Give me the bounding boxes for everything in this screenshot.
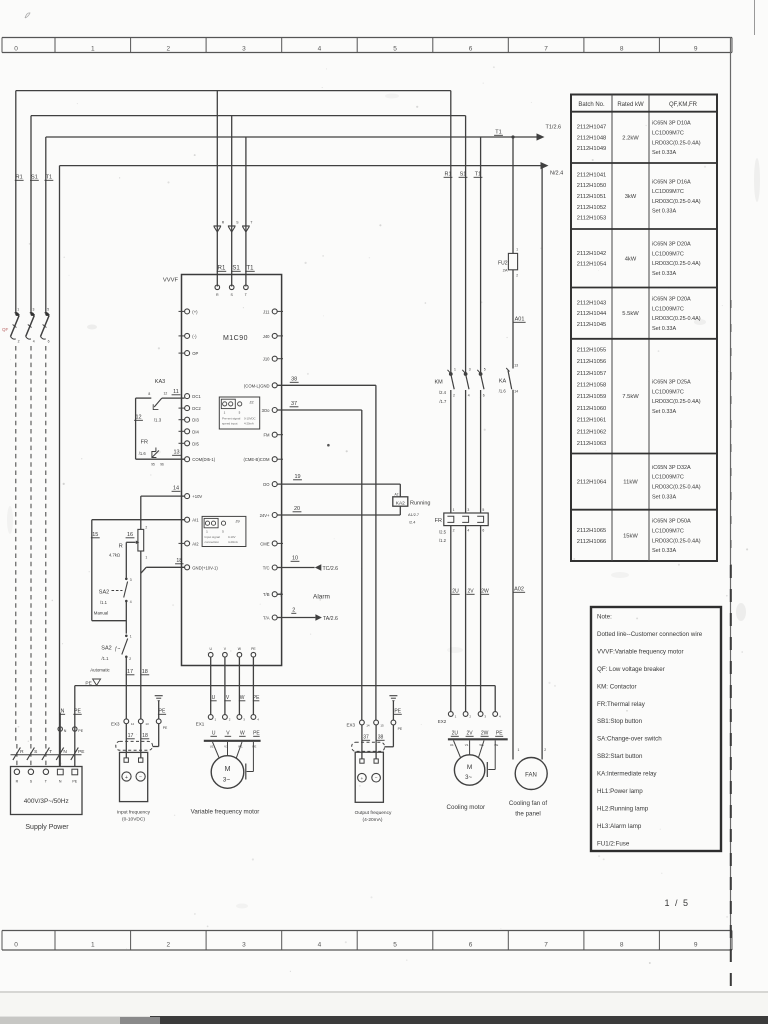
svg-text:1: 1 <box>130 635 132 639</box>
svg-text:iC65N 3P D25A: iC65N 3P D25A <box>652 379 691 385</box>
svg-text:2V: 2V <box>467 731 474 737</box>
svg-text:2112H1053: 2112H1053 <box>577 216 607 222</box>
svg-text:R: R <box>20 749 24 755</box>
svg-text:PE: PE <box>398 727 403 731</box>
svg-text:iC65N 3P D10A: iC65N 3P D10A <box>652 121 691 127</box>
svg-text:T/A: T/A <box>263 616 270 621</box>
svg-text:2112H1056: 2112H1056 <box>577 359 607 365</box>
svg-text:5: 5 <box>482 508 484 512</box>
svg-text:95: 95 <box>151 463 155 467</box>
svg-text:U: U <box>212 695 216 701</box>
svg-text:DI5: DI5 <box>192 441 199 446</box>
svg-text:5: 5 <box>393 46 397 53</box>
svg-text:2112H1042: 2112H1042 <box>577 251 607 257</box>
svg-text:R: R <box>216 293 219 297</box>
svg-text:2A: 2A <box>503 268 508 273</box>
svg-text:iC65N 3P D50A: iC65N 3P D50A <box>652 519 691 525</box>
svg-text:9: 9 <box>694 942 698 949</box>
svg-text:14: 14 <box>173 486 179 492</box>
svg-text:W: W <box>240 695 245 701</box>
svg-text:R1: R1 <box>444 172 451 178</box>
svg-text:/1.6: /1.6 <box>139 451 147 456</box>
svg-text:3Oo: 3Oo <box>262 408 271 413</box>
svg-text:U: U <box>212 731 216 737</box>
svg-text:2112H1055: 2112H1055 <box>577 347 607 353</box>
svg-text:2112H1047: 2112H1047 <box>577 125 607 131</box>
svg-text:A02: A02 <box>514 587 524 593</box>
svg-text:2: 2 <box>453 394 455 398</box>
svg-text:2112H1060: 2112H1060 <box>577 406 607 412</box>
svg-text:R1: R1 <box>16 175 23 181</box>
svg-text:4: 4 <box>467 529 469 533</box>
svg-text:PE: PE <box>253 731 260 737</box>
svg-text:11: 11 <box>173 389 179 395</box>
svg-text:2: 2 <box>18 340 20 344</box>
svg-text:HL2:Running lamp: HL2:Running lamp <box>597 805 649 812</box>
svg-text:QF: QF <box>2 327 9 332</box>
svg-text:LRD03C(0.25-0.4A): LRD03C(0.25-0.4A) <box>652 261 701 267</box>
svg-text:7.5kW: 7.5kW <box>622 394 639 400</box>
svg-text:EX3: EX3 <box>347 723 356 728</box>
svg-text:1: 1 <box>145 556 147 560</box>
svg-text:Set 0.33A: Set 0.33A <box>652 209 676 215</box>
svg-text:0: 0 <box>14 46 18 53</box>
svg-text:18: 18 <box>142 669 148 675</box>
svg-text:(0-10VDC): (0-10VDC) <box>122 817 145 823</box>
svg-text:9: 9 <box>694 46 698 53</box>
svg-text:4-20mA: 4-20mA <box>244 422 254 426</box>
svg-text:SA2: SA2 <box>101 646 111 652</box>
svg-text:EX1: EX1 <box>196 722 205 727</box>
svg-text:−: − <box>375 777 378 782</box>
svg-text:LC1D09M7C: LC1D09M7C <box>652 130 684 136</box>
svg-text:1: 1 <box>454 368 456 372</box>
svg-text:T1: T1 <box>46 175 52 181</box>
svg-text:N/2.4: N/2.4 <box>550 171 563 177</box>
svg-text:38: 38 <box>378 735 384 741</box>
svg-text:Set 0.33A: Set 0.33A <box>652 409 676 415</box>
svg-text:2112H1043: 2112H1043 <box>577 300 607 306</box>
svg-text:3: 3 <box>242 942 246 949</box>
svg-text:0-10V: 0-10V <box>228 535 236 539</box>
svg-text:2: 2 <box>167 46 171 53</box>
svg-text:N: N <box>61 709 65 715</box>
svg-text:1: 1 <box>17 308 19 312</box>
svg-text:1: 1 <box>516 248 518 252</box>
svg-text:Supply Power: Supply Power <box>25 824 69 831</box>
svg-text:A1/2.7: A1/2.7 <box>408 513 419 517</box>
svg-text:iC65N 3P D16A: iC65N 3P D16A <box>652 179 691 185</box>
svg-text:1: 1 <box>91 46 95 53</box>
svg-text:SA:Change-over switch: SA:Change-over switch <box>597 736 662 743</box>
svg-text:4: 4 <box>130 600 132 604</box>
svg-text:24V+: 24V+ <box>260 513 270 518</box>
svg-text:17: 17 <box>127 669 133 675</box>
svg-text:VVVF:Variable frequency motor: VVVF:Variable frequency motor <box>597 648 684 655</box>
svg-text:TC/2.6: TC/2.6 <box>323 566 339 572</box>
svg-text:connection: connection <box>205 540 220 544</box>
svg-text:Pre-set signal: Pre-set signal <box>222 417 241 421</box>
svg-text:J10: J10 <box>263 357 270 362</box>
svg-text:3~: 3~ <box>223 777 231 784</box>
svg-text:PE: PE <box>251 647 256 651</box>
svg-text:(CME-B)COM: (CME-B)COM <box>243 457 270 462</box>
svg-text:PE: PE <box>159 709 166 715</box>
svg-text:2: 2 <box>453 529 455 533</box>
svg-text:J11: J11 <box>263 309 270 314</box>
svg-text:Rated kW: Rated kW <box>617 102 644 108</box>
svg-text:LRD03C(0.25-0.4A): LRD03C(0.25-0.4A) <box>652 399 701 405</box>
svg-text:4: 4 <box>318 942 322 949</box>
svg-text:(4-20mA): (4-20mA) <box>363 817 383 823</box>
svg-text:12: 12 <box>164 392 168 396</box>
svg-text:10: 10 <box>292 556 298 562</box>
svg-text:3: 3 <box>130 578 132 582</box>
svg-text:/1.7: /1.7 <box>439 399 447 404</box>
svg-text:EX2: EX2 <box>438 719 447 724</box>
svg-text:3: 3 <box>467 508 469 512</box>
svg-text:SA2: SA2 <box>99 590 109 596</box>
svg-text:iC65N 3P D20A: iC65N 3P D20A <box>652 296 691 302</box>
svg-text:8: 8 <box>620 46 624 53</box>
svg-text:PE: PE <box>72 780 77 784</box>
svg-text:1: 1 <box>453 508 455 512</box>
svg-text:Cooling fan of: Cooling fan of <box>509 800 547 807</box>
svg-text:2U: 2U <box>452 589 459 595</box>
svg-text:A01: A01 <box>515 317 525 323</box>
svg-text:/2.5: /2.5 <box>439 530 447 535</box>
svg-text:LC1D09M7C: LC1D09M7C <box>652 251 684 257</box>
svg-text:3: 3 <box>242 46 246 53</box>
svg-text:TA/2.6: TA/2.6 <box>323 616 338 622</box>
svg-text:2112H1057: 2112H1057 <box>577 371 607 377</box>
svg-text:−: − <box>139 775 142 781</box>
svg-text:2112H1059: 2112H1059 <box>577 394 607 400</box>
svg-text:2V: 2V <box>467 589 474 595</box>
svg-text:KA3: KA3 <box>155 379 165 385</box>
svg-text:Set 0.33A: Set 0.33A <box>652 548 676 554</box>
svg-text:2U: 2U <box>452 731 459 737</box>
svg-text:DC1: DC1 <box>192 394 201 399</box>
svg-text:iC65N 3P D32A: iC65N 3P D32A <box>652 465 691 471</box>
svg-text:7: 7 <box>544 46 548 53</box>
svg-text:2112H1048: 2112H1048 <box>577 135 607 141</box>
svg-text:17: 17 <box>128 733 134 739</box>
svg-text:QF: Low voltage breaker: QF: Low voltage breaker <box>597 666 665 673</box>
svg-text:T/B: T/B <box>263 592 270 597</box>
svg-text:8: 8 <box>620 942 624 949</box>
svg-text:6: 6 <box>469 942 473 949</box>
svg-text:S: S <box>34 749 37 755</box>
svg-text:FR: FR <box>435 518 442 524</box>
svg-text:5: 5 <box>393 942 397 949</box>
svg-text:2112H1066: 2112H1066 <box>577 539 607 545</box>
svg-text:2112H1049: 2112H1049 <box>577 146 607 152</box>
svg-text:FR:Thermal relay: FR:Thermal relay <box>597 701 646 708</box>
svg-text:T1: T1 <box>246 266 254 272</box>
svg-text:SB1:Stop button: SB1:Stop button <box>597 718 643 725</box>
svg-text:PE: PE <box>496 731 503 737</box>
svg-text:2112H1054: 2112H1054 <box>577 262 607 268</box>
svg-text:LRD03C(0.25-0.4A): LRD03C(0.25-0.4A) <box>652 538 701 544</box>
svg-text:PE: PE <box>253 695 260 701</box>
svg-text:M: M <box>225 766 231 773</box>
svg-text:38: 38 <box>291 377 297 383</box>
svg-text:3: 3 <box>469 368 471 372</box>
svg-text:2: 2 <box>145 526 147 530</box>
svg-text:VVVF: VVVF <box>163 278 179 284</box>
svg-text:CME: CME <box>260 541 270 546</box>
svg-text:/1.3: /1.3 <box>154 418 162 423</box>
svg-text:2112H1050: 2112H1050 <box>577 183 607 189</box>
svg-text:Set 0.33A: Set 0.33A <box>652 271 676 277</box>
svg-text:S1: S1 <box>31 175 38 181</box>
svg-text:N: N <box>63 749 67 755</box>
svg-text:/1.1: /1.1 <box>100 600 108 605</box>
svg-text:PE: PE <box>74 709 81 715</box>
svg-text:N: N <box>64 729 67 733</box>
svg-text:2: 2 <box>129 657 131 661</box>
svg-text:AI1: AI1 <box>192 518 199 523</box>
svg-text:5: 5 <box>484 368 486 372</box>
svg-text:W: W <box>240 731 245 737</box>
svg-text:S1: S1 <box>232 266 240 272</box>
svg-text:14: 14 <box>514 390 518 394</box>
svg-text:2112H1044: 2112H1044 <box>577 311 607 317</box>
svg-text:LC1D09M7C: LC1D09M7C <box>652 528 684 534</box>
svg-text:T1: T1 <box>495 130 501 136</box>
svg-text:1: 1 <box>91 942 95 949</box>
svg-text:SB2:Start button: SB2:Start button <box>597 753 643 760</box>
svg-text:12: 12 <box>131 722 135 726</box>
svg-text:EX3: EX3 <box>111 722 120 727</box>
svg-text:LRD03C(0.25-0.4A): LRD03C(0.25-0.4A) <box>652 316 701 322</box>
svg-text:PE: PE <box>78 729 83 733</box>
svg-text:Dotted line--Customer connecti: Dotted line--Customer connection wire <box>597 631 703 638</box>
svg-text:KA: KA <box>499 379 507 385</box>
svg-text:11kW: 11kW <box>623 480 638 486</box>
svg-text:R1: R1 <box>218 266 226 272</box>
svg-text:QF,KM,FR: QF,KM,FR <box>669 102 698 108</box>
svg-text:2: 2 <box>292 608 295 614</box>
svg-text:20: 20 <box>294 506 300 512</box>
svg-text:96: 96 <box>160 463 164 467</box>
svg-text:DO: DO <box>263 482 270 487</box>
svg-text:5: 5 <box>47 308 49 312</box>
svg-text:2: 2 <box>516 274 518 278</box>
svg-text:6: 6 <box>483 394 485 398</box>
svg-text:2112H1051: 2112H1051 <box>577 194 607 200</box>
svg-text:+: + <box>125 775 128 781</box>
svg-text:Note:: Note: <box>597 614 612 621</box>
svg-text:0: 0 <box>14 942 18 949</box>
svg-text:the panel: the panel <box>515 811 540 818</box>
svg-text:37: 37 <box>291 401 297 407</box>
svg-text:13: 13 <box>514 364 518 368</box>
svg-text:2W: 2W <box>481 731 489 737</box>
svg-text:M1C90: M1C90 <box>223 335 248 342</box>
svg-text:6: 6 <box>482 529 484 533</box>
svg-text:FU2: FU2 <box>498 261 508 267</box>
svg-text:FR: FR <box>141 440 148 446</box>
svg-text:Set 0.33A: Set 0.33A <box>652 494 676 500</box>
svg-text:2: 2 <box>167 942 171 949</box>
svg-text:PE: PE <box>85 681 91 687</box>
svg-text:2112H1041: 2112H1041 <box>577 172 607 178</box>
svg-text:OP: OP <box>192 351 198 356</box>
svg-text:T: T <box>250 221 252 225</box>
svg-text:4.7kΩ: 4.7kΩ <box>109 553 120 558</box>
svg-text:Input signal: Input signal <box>205 535 221 539</box>
svg-text:COM(DI5-1): COM(DI5-1) <box>192 457 215 462</box>
svg-text:+: + <box>360 777 363 782</box>
svg-text:LC1D09M7C: LC1D09M7C <box>652 389 684 395</box>
svg-text:LC1D09M7C: LC1D09M7C <box>652 189 684 195</box>
svg-text:1 / 5: 1 / 5 <box>664 898 689 908</box>
svg-text:6: 6 <box>48 340 50 344</box>
svg-text:(+): (+) <box>192 309 198 314</box>
svg-text:KA:Intermediate relay: KA:Intermediate relay <box>597 771 657 778</box>
svg-text:M: M <box>467 764 472 771</box>
svg-text:Cooling motor: Cooling motor <box>447 804 486 811</box>
svg-text:T: T <box>49 749 52 755</box>
svg-text:FAN: FAN <box>525 773 537 779</box>
svg-text:Running: Running <box>410 501 431 507</box>
svg-text:14: 14 <box>366 723 370 727</box>
svg-text:Input frequency: Input frequency <box>117 810 151 816</box>
svg-text:T1: T1 <box>475 172 481 178</box>
svg-text:KM: KM <box>434 380 443 386</box>
svg-text:16: 16 <box>127 532 133 538</box>
svg-text:GND(+10V-1): GND(+10V-1) <box>192 565 218 570</box>
svg-text:7: 7 <box>544 942 548 949</box>
svg-text:15: 15 <box>380 723 384 727</box>
svg-text:2.2kW: 2.2kW <box>622 135 639 141</box>
svg-text:iC65N 3P D20A: iC65N 3P D20A <box>652 242 691 248</box>
svg-text:+10V: +10V <box>192 494 202 499</box>
svg-text:LRD03C(0.25-0.4A): LRD03C(0.25-0.4A) <box>652 485 701 491</box>
svg-text:LRD03C(0.25-0.4A): LRD03C(0.25-0.4A) <box>652 140 701 146</box>
svg-text:PE: PE <box>394 709 401 715</box>
svg-text:2112H1063: 2112H1063 <box>577 441 607 447</box>
svg-text:R: R <box>119 544 123 550</box>
svg-text:2112H1062: 2112H1062 <box>577 429 607 435</box>
svg-text:4kW: 4kW <box>625 256 637 262</box>
svg-text:LC1D09M7C: LC1D09M7C <box>652 475 684 481</box>
svg-text:PE: PE <box>163 726 168 730</box>
svg-text:13: 13 <box>173 450 179 456</box>
svg-text:/1.1: /1.1 <box>102 656 110 661</box>
svg-text:2112H1065: 2112H1065 <box>577 528 607 534</box>
svg-text:AI2: AI2 <box>192 541 199 546</box>
svg-text:2112H1052: 2112H1052 <box>577 205 607 211</box>
svg-text:13: 13 <box>145 722 149 726</box>
svg-text:Manual: Manual <box>94 611 108 616</box>
svg-text:15kW: 15kW <box>623 533 638 539</box>
svg-text:U1: U1 <box>450 743 454 747</box>
svg-text:FU1/2:Fuse: FU1/2:Fuse <box>597 840 630 847</box>
svg-text:(COM-L)GND: (COM-L)GND <box>244 383 270 388</box>
svg-text:4: 4 <box>33 340 35 344</box>
svg-text:A2: A2 <box>395 493 399 497</box>
svg-text:HL3:Alarm lamp: HL3:Alarm lamp <box>597 823 642 830</box>
svg-text:2112H1061: 2112H1061 <box>577 418 607 424</box>
svg-text:Set 0.33A: Set 0.33A <box>652 326 676 332</box>
svg-text:Set 0.33A: Set 0.33A <box>652 150 676 156</box>
svg-text:T/C: T/C <box>263 566 270 571</box>
svg-text:LRD03C(0.25-0.4A): LRD03C(0.25-0.4A) <box>652 199 701 205</box>
svg-text:3~: 3~ <box>465 775 472 781</box>
svg-text:S1: S1 <box>460 172 467 178</box>
svg-text:/1.6: /1.6 <box>499 389 507 394</box>
svg-text:8: 8 <box>148 392 150 396</box>
svg-text:4: 4 <box>468 394 470 398</box>
svg-text:/1.2: /1.2 <box>439 538 447 543</box>
svg-text:(-): (-) <box>192 334 197 339</box>
svg-text:5.5kW: 5.5kW <box>622 311 639 317</box>
svg-text:LC1D09M7C: LC1D09M7C <box>652 306 684 312</box>
svg-text:2112H1058: 2112H1058 <box>577 382 607 388</box>
svg-text:4-20mA: 4-20mA <box>228 540 238 544</box>
svg-text:FM: FM <box>263 433 270 438</box>
svg-text:18: 18 <box>176 558 182 564</box>
svg-text:Automatic: Automatic <box>90 668 110 673</box>
svg-text:V1: V1 <box>465 743 469 747</box>
svg-text:2: 2 <box>544 748 546 752</box>
svg-text:N: N <box>59 780 62 784</box>
svg-text:0-10VDC: 0-10VDC <box>244 417 256 421</box>
svg-text:DI3: DI3 <box>192 418 199 423</box>
svg-text:KM: Contactor: KM: Contactor <box>597 683 637 690</box>
svg-text:Batch No.: Batch No. <box>578 102 605 108</box>
svg-text:400V/3P~/50Hz: 400V/3P~/50Hz <box>24 798 69 805</box>
svg-text:DI4: DI4 <box>192 429 199 434</box>
svg-text:12: 12 <box>135 415 141 421</box>
svg-text:2W: 2W <box>481 589 489 595</box>
svg-text:2112H1045: 2112H1045 <box>577 322 607 328</box>
svg-text:Variable frequency motor: Variable frequency motor <box>191 809 260 816</box>
svg-text:J40: J40 <box>263 334 270 339</box>
svg-text:Alarm: Alarm <box>313 594 330 601</box>
svg-text:37: 37 <box>363 735 369 741</box>
svg-text:/2.4: /2.4 <box>409 521 415 525</box>
svg-text:KA2: KA2 <box>396 500 405 506</box>
svg-text:15: 15 <box>92 532 98 538</box>
svg-text:HL1:Power lamp: HL1:Power lamp <box>597 788 643 795</box>
svg-text:R: R <box>16 780 19 784</box>
svg-text:18: 18 <box>142 733 148 739</box>
svg-text:4: 4 <box>318 46 322 53</box>
svg-text:T1/2.6: T1/2.6 <box>546 125 562 131</box>
svg-text:Output frequency: Output frequency <box>355 810 392 816</box>
svg-text:/2.4: /2.4 <box>439 390 447 395</box>
svg-text:2112H1064: 2112H1064 <box>577 480 607 486</box>
svg-text:speed input: speed input <box>222 422 238 426</box>
svg-text:19: 19 <box>294 474 300 480</box>
svg-text:3: 3 <box>33 308 35 312</box>
svg-text:PE: PE <box>78 749 84 755</box>
svg-text:3kW: 3kW <box>625 194 637 200</box>
svg-text:6: 6 <box>469 46 473 53</box>
svg-text:ƒ~: ƒ~ <box>115 647 121 653</box>
svg-text:1: 1 <box>518 748 520 752</box>
svg-text:DC2: DC2 <box>192 406 201 411</box>
